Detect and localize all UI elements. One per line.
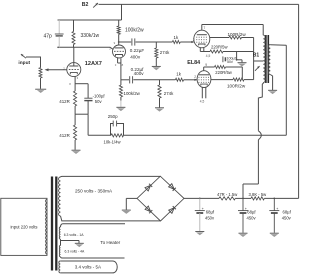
svg-text:B2: B2 (82, 2, 89, 8)
svg-text:6.3 volts - 1A: 6.3 volts - 1A (64, 233, 85, 237)
svg-text:400v: 400v (134, 71, 145, 76)
svg-text:412R: 412R (59, 99, 70, 104)
svg-text:100k/2w: 100k/2w (125, 28, 144, 34)
svg-text:To Heater: To Heater (100, 240, 120, 245)
svg-text:0.22µF: 0.22µF (130, 48, 145, 53)
svg-text:1k: 1k (176, 71, 181, 76)
svg-text:450v: 450v (205, 215, 215, 220)
svg-text:3.8K - 5w: 3.8K - 5w (249, 192, 268, 197)
svg-text:EL84: EL84 (187, 60, 200, 66)
svg-text:2: 2 (193, 38, 195, 42)
svg-text:450v: 450v (282, 215, 292, 220)
svg-text:-100µf: -100µf (93, 93, 106, 98)
svg-text:B1: B1 (253, 53, 260, 59)
svg-text:250 volts - 350mA: 250 volts - 350mA (75, 189, 113, 194)
svg-text:68µf: 68µf (283, 210, 292, 215)
svg-text:8: 8 (122, 63, 124, 67)
svg-text:220R/5w: 220R/5w (215, 70, 233, 75)
svg-text:3: 3 (115, 63, 117, 67)
svg-text:412R: 412R (59, 133, 70, 138)
svg-text:input 220 volts: input 220 volts (11, 224, 38, 229)
svg-text:50v: 50v (227, 60, 233, 64)
svg-text:9: 9 (205, 63, 207, 67)
svg-text:8: 8 (69, 82, 71, 86)
svg-text:330k/1w: 330k/1w (81, 33, 100, 39)
svg-text:4,5: 4,5 (206, 54, 211, 58)
svg-text:47R - 1.5w: 47R - 1.5w (217, 192, 238, 197)
svg-text:450v: 450v (247, 215, 257, 220)
svg-text:100R/2w: 100R/2w (227, 84, 246, 89)
svg-text:100R/2w: 100R/2w (228, 32, 247, 37)
svg-text:274k: 274k (160, 50, 170, 55)
svg-text:9: 9 (114, 41, 116, 45)
svg-text:100k/2w: 100k/2w (124, 91, 141, 96)
svg-text:4,5: 4,5 (200, 99, 205, 103)
svg-text:7: 7 (203, 26, 205, 30)
svg-text:274k: 274k (164, 91, 174, 96)
svg-text:1k: 1k (174, 35, 179, 40)
svg-text:220R/5w: 220R/5w (211, 44, 229, 49)
svg-text:68µf: 68µf (247, 210, 256, 215)
svg-text:10k-1/4w: 10k-1/4w (104, 140, 122, 145)
svg-text:250p: 250p (108, 114, 118, 119)
svg-text:12AX7: 12AX7 (85, 61, 102, 67)
svg-text:3: 3 (77, 76, 79, 80)
svg-text:68µf: 68µf (206, 210, 215, 215)
svg-text:50v: 50v (95, 99, 103, 104)
svg-text:400v: 400v (130, 55, 141, 60)
svg-text:2: 2 (109, 47, 111, 51)
svg-text:3.4 volts - 5A: 3.4 volts - 5A (75, 265, 101, 270)
svg-text:2: 2 (194, 75, 196, 79)
svg-text:input: input (18, 60, 30, 66)
svg-text:47p: 47p (44, 34, 53, 40)
svg-text:6.3 volts - 4A: 6.3 volts - 4A (65, 249, 86, 253)
